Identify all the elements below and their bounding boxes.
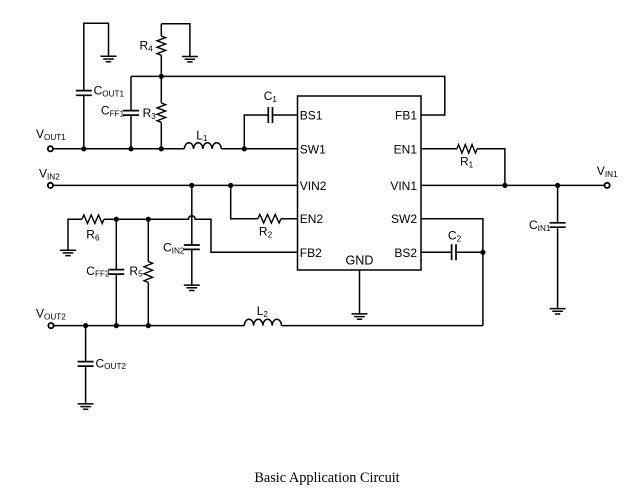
svg-text:SW2: SW2 <box>391 212 417 226</box>
svg-text:BS1: BS1 <box>300 109 323 123</box>
svg-text:VIN1: VIN1 <box>390 179 417 193</box>
svg-text:SW1: SW1 <box>300 142 326 156</box>
svg-text:VIN2: VIN2 <box>300 179 327 193</box>
svg-text:BS2: BS2 <box>394 246 417 260</box>
svg-text:FB2: FB2 <box>300 246 322 260</box>
svg-text:EN1: EN1 <box>394 142 418 156</box>
svg-text:Basic Application Circuit: Basic Application Circuit <box>254 470 399 486</box>
svg-text:EN2: EN2 <box>300 212 324 226</box>
svg-text:FB1: FB1 <box>395 109 417 123</box>
svg-text:GND: GND <box>346 254 374 268</box>
